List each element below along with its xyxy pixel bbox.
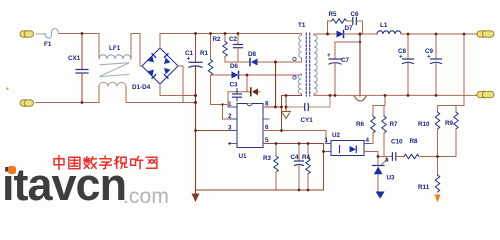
resistor R8 <box>404 138 438 159</box>
wire top rail LF1 to bridge <box>131 34 142 67</box>
svg-text:R3: R3 <box>263 155 272 162</box>
wire U1 pin3R to U2 <box>263 131 331 144</box>
capacitor C6 <box>347 11 363 25</box>
wire primary gnd rail <box>196 189 324 191</box>
svg-text:R9: R9 <box>445 120 454 127</box>
watermark .com <box>123 185 169 209</box>
TL431 U3 <box>373 157 396 192</box>
connector J2 AC input bottom <box>20 100 34 106</box>
svg-text:+: + <box>327 52 331 59</box>
diode D8 <box>248 51 258 66</box>
capacitor C4 <box>291 144 304 191</box>
watermark chinese characters drawn <box>54 156 157 170</box>
ground triangle U3 <box>376 192 385 199</box>
svg-text:D1-D4: D1-D4 <box>132 84 151 91</box>
wire R1 to U1 pins <box>211 104 229 106</box>
capacitor C3 <box>230 82 242 102</box>
svg-text:C6: C6 <box>351 11 360 18</box>
svg-text:D8: D8 <box>248 51 257 58</box>
wire bottom AC rail <box>36 102 99 104</box>
svg-text:6: 6 <box>265 124 269 131</box>
wire U2 right pins <box>364 152 378 166</box>
resistor R7 <box>382 106 398 157</box>
capacitor C2 <box>229 34 243 63</box>
T1 leads <box>301 34 303 36</box>
T1 polarity dots <box>293 57 296 60</box>
wire fb line <box>378 156 392 158</box>
wire bias line <box>228 91 251 93</box>
resistor R4 <box>302 144 311 191</box>
wire U1 pin4R line <box>263 144 324 191</box>
capacitor CY1 <box>286 95 330 124</box>
diode D6 <box>211 63 239 79</box>
wire secondary top rail <box>328 33 337 35</box>
resistor R1 <box>200 34 213 105</box>
svg-text:8: 8 <box>265 101 269 108</box>
svg-text:3: 3 <box>228 125 232 132</box>
orange marker below R11 <box>435 195 441 203</box>
resistor R3 <box>263 144 278 191</box>
svg-text:C4: C4 <box>291 154 300 161</box>
svg-text:CY1: CY1 <box>301 117 314 124</box>
svg-text:1: 1 <box>325 137 329 144</box>
svg-text:R10: R10 <box>418 121 430 128</box>
capacitor C10 <box>391 139 404 161</box>
wire D6 to primary lower pin <box>239 74 302 75</box>
choke LF1 <box>99 34 131 103</box>
svg-text:U1: U1 <box>239 153 248 160</box>
svg-text:T1: T1 <box>298 22 306 29</box>
connector J3 output plus <box>477 31 494 37</box>
resistor R2 <box>213 34 228 63</box>
svg-text:R11: R11 <box>418 184 430 191</box>
svg-text:R5: R5 <box>329 11 338 18</box>
wire drain to U1 pin1R <box>263 106 282 108</box>
wire snubber bar <box>225 61 250 63</box>
svg-text:+: + <box>427 54 431 61</box>
svg-text:C7: C7 <box>341 57 350 64</box>
capacitor C7 <box>327 42 360 95</box>
svg-text:5: 5 <box>265 137 269 144</box>
capacitor C9 <box>425 34 442 95</box>
T1 secondary winding <box>314 35 317 94</box>
svg-text:4: 4 <box>366 137 370 144</box>
svg-text:CX1: CX1 <box>68 55 81 62</box>
wire bridge right to AC rail <box>178 66 183 103</box>
watermark orange i-dot <box>8 166 16 174</box>
resistor R6 <box>356 106 375 144</box>
T1 primary upper winding <box>299 35 302 58</box>
optocoupler U2 <box>326 132 370 156</box>
wire drain vertical <box>275 62 277 107</box>
svg-text:2: 2 <box>228 113 232 120</box>
snubber legs R5 C6 <box>327 21 329 34</box>
svg-text:C3: C3 <box>230 82 239 89</box>
svg-text:R8: R8 <box>410 138 419 145</box>
resistor R5 <box>328 11 347 23</box>
svg-text:+: + <box>187 56 191 63</box>
wire D8 to primary pin <box>258 61 302 63</box>
fuse F1 <box>44 29 59 39</box>
T1 core <box>306 33 309 96</box>
capacitor CX1 <box>68 34 88 103</box>
svg-text:L1: L1 <box>380 22 388 29</box>
wire bridge plus to top rail <box>160 34 302 49</box>
svg-text:R4: R4 <box>302 154 311 161</box>
ground hook secondary <box>355 96 367 101</box>
svg-text:R2: R2 <box>213 36 222 43</box>
svg-text:R6: R6 <box>356 121 365 128</box>
wire divider feed vertical right <box>438 34 465 106</box>
svg-text:C2: C2 <box>229 36 238 43</box>
svg-text:U3: U3 <box>387 175 396 182</box>
capacitor C8 <box>398 34 414 95</box>
wire top rail F1 to LF1 <box>59 33 99 35</box>
wire opto feed vertical <box>373 95 385 105</box>
wire C1 gnd vertical <box>195 66 197 194</box>
ground arrow primary <box>192 194 200 203</box>
wire U2 pin2 to gnd elbow <box>324 151 326 153</box>
svg-text:a: a <box>385 157 389 164</box>
resistor R10 <box>418 106 440 157</box>
wire output bottom rail <box>330 94 477 96</box>
connector J1 AC input top <box>20 31 44 37</box>
svg-text:F1: F1 <box>44 41 52 48</box>
transformer T1 <box>282 22 331 96</box>
diode D5 <box>251 88 260 96</box>
svg-text:+: + <box>399 54 403 61</box>
wire CY1 riser to D7 node <box>359 34 361 96</box>
IC U1 <box>229 104 271 161</box>
capacitor C1 <box>185 34 202 68</box>
svg-text:D7: D7 <box>345 25 354 32</box>
connector J4 output minus <box>477 91 494 97</box>
svg-text:U2: U2 <box>332 132 341 139</box>
watermark logo itavcn <box>2 159 126 211</box>
resistor R11 <box>418 157 440 192</box>
svg-text:R1: R1 <box>200 50 209 57</box>
pin number marks <box>228 101 389 164</box>
wire bridge minus to gnd node <box>160 84 196 96</box>
ground arrow aux <box>282 96 291 119</box>
T1 primary lower winding <box>298 74 301 94</box>
wire gnd to U1 pin3L <box>196 130 238 132</box>
wire aux vertical <box>281 96 283 131</box>
svg-text:D6: D6 <box>230 63 239 70</box>
bridge rectifier D1-D4 <box>132 48 178 91</box>
wire output top rail <box>401 33 477 35</box>
svg-text:R7: R7 <box>390 121 399 128</box>
svg-text:1: 1 <box>228 101 232 108</box>
diode D7 <box>337 25 354 38</box>
inductor L1 <box>377 22 401 34</box>
svg-text:LF1: LF1 <box>109 45 121 52</box>
svg-text:C10: C10 <box>391 139 403 146</box>
resistor R9 <box>438 106 459 157</box>
